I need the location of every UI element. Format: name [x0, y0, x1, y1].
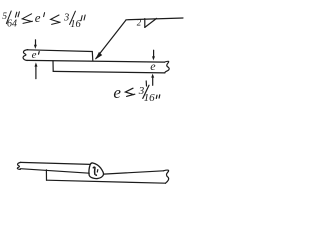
svg-text:16: 16: [70, 19, 81, 30]
svg-text:3: 3: [63, 13, 69, 24]
svg-text:e: e: [113, 83, 121, 102]
svg-text:64: 64: [7, 18, 17, 29]
svg-text:2: 2: [137, 18, 142, 28]
svg-text:e: e: [150, 59, 156, 73]
svg-text:16: 16: [144, 92, 156, 104]
svg-text:e: e: [32, 49, 37, 61]
svg-text:e: e: [35, 10, 41, 25]
